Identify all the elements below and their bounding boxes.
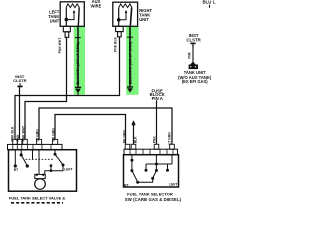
node U2 wiper junction bbox=[117, 18, 121, 22]
right tank unit U2 box bbox=[113, 2, 138, 26]
wiper arm U2 bbox=[119, 13, 126, 20]
valve switch arm right bbox=[54, 150, 56, 154]
arrow up BLK wire bbox=[132, 120, 136, 124]
svg-text:DK GRN: DK GRN bbox=[122, 130, 126, 144]
right selector connector strip bbox=[125, 144, 130, 149]
wire DK GRN run: left valve pin5 across to right selector pin1 bbox=[55, 115, 126, 145]
fuel tank selector switch box bbox=[124, 155, 179, 187]
svg-text:BLU/GRN (OR LT GRN): BLU/GRN (OR LT GRN) bbox=[75, 42, 80, 85]
svg-text:BLK: BLK bbox=[134, 136, 138, 143]
valve feed stub bbox=[32, 150, 34, 160]
wire aux right (in green) bbox=[129, 26, 131, 86]
svg-text:SW (CARB GAS & DIESEL): SW (CARB GAS & DIESEL) bbox=[125, 197, 182, 202]
wire PNK BLK run: left valve pin1 up, across, up to U2 left pin bbox=[15, 37, 120, 140]
wire U1 right pin inside bbox=[77, 8, 80, 27]
resistor R1 (left tank unit sender) bbox=[66, 4, 79, 8]
connector below U1 bbox=[63, 26, 70, 32]
selector LEFT switch bbox=[155, 155, 157, 171]
connector below U2 bbox=[116, 26, 124, 31]
left valve connector strip bbox=[13, 139, 18, 144]
svg-text:PNK: PNK bbox=[188, 51, 192, 58]
selector RT switch bbox=[131, 155, 133, 171]
wiper arm U1 bbox=[66, 13, 74, 20]
highlighted aux wire left (green) bbox=[74, 26, 85, 94]
svg-text:LT GRN: LT GRN bbox=[167, 132, 171, 145]
single tank unit symbol bbox=[190, 61, 196, 64]
svg-text:PIN A: PIN A bbox=[152, 96, 163, 101]
left tank unit U1 box bbox=[60, 2, 84, 27]
resistor R2 (right tank unit sender) bbox=[119, 4, 132, 8]
valve motor feed bbox=[38, 150, 40, 175]
svg-text:RT: RT bbox=[14, 168, 18, 172]
wire PNK to single tank unit bbox=[192, 48, 194, 62]
wire U2 right pin inside bbox=[130, 8, 131, 27]
svg-text:PNK WHT: PNK WHT bbox=[58, 38, 62, 54]
selector gang link bbox=[146, 163, 172, 165]
arrow end of right aux wire bbox=[127, 86, 133, 88]
wire U1 left pin inside bbox=[65, 8, 67, 27]
motor M1 bbox=[35, 174, 45, 178]
dashed gang line bbox=[26, 158, 54, 160]
svg-text:LEFT: LEFT bbox=[169, 183, 177, 187]
svg-text:BLU: BLU bbox=[203, 0, 212, 5]
svg-text:CLSTR: CLSTR bbox=[186, 38, 201, 43]
svg-text:(EX EFI GAS): (EX EFI GAS) bbox=[182, 79, 209, 84]
valve contact RT feed bbox=[14, 150, 16, 166]
wire U2 left pin inside bbox=[118, 8, 120, 27]
svg-text:FUEL TANK SELECTOR: FUEL TANK SELECTOR bbox=[127, 191, 173, 196]
node U1 wiper junction bbox=[65, 18, 69, 22]
svg-text:L: L bbox=[213, 0, 216, 5]
svg-text:PNK: PNK bbox=[152, 136, 156, 144]
arrow end of left aux wire bbox=[75, 86, 81, 88]
svg-text:UNIT: UNIT bbox=[50, 18, 60, 23]
svg-text:RT: RT bbox=[124, 183, 128, 187]
svg-text:FUEL TANK SELECT VALVE &: FUEL TANK SELECT VALVE & bbox=[9, 195, 65, 200]
wire aux left (in green) bbox=[77, 26, 79, 87]
wire PNK WHT run: left valve pin3 up, across to U1 left pin bbox=[25, 37, 67, 139]
svg-text:LEFT: LEFT bbox=[64, 167, 72, 171]
svg-text:PNK: PNK bbox=[16, 134, 20, 142]
fuel tank select valve box bbox=[9, 150, 77, 192]
node on gang bar bbox=[50, 169, 53, 172]
svg-text:WIRE: WIRE bbox=[91, 4, 102, 9]
wire PNK from inst cluster left bbox=[19, 87, 21, 139]
svg-text:UNIT: UNIT bbox=[139, 17, 149, 22]
svg-text:BLU/GRN (OR LT GRN): BLU/GRN (OR LT GRN) bbox=[127, 41, 132, 84]
wire BLK down to selector bbox=[133, 125, 135, 144]
valve switch arm left bbox=[20, 150, 22, 155]
highlighted aux wire right (green) bbox=[126, 26, 138, 95]
wire LT GRN run: left valve pin4 across to right selector bbox=[39, 108, 172, 144]
svg-text:PNK BLK: PNK BLK bbox=[113, 36, 117, 51]
svg-text:CLSTR: CLSTR bbox=[13, 78, 26, 83]
wire PNK from fuse block bbox=[156, 100, 158, 144]
